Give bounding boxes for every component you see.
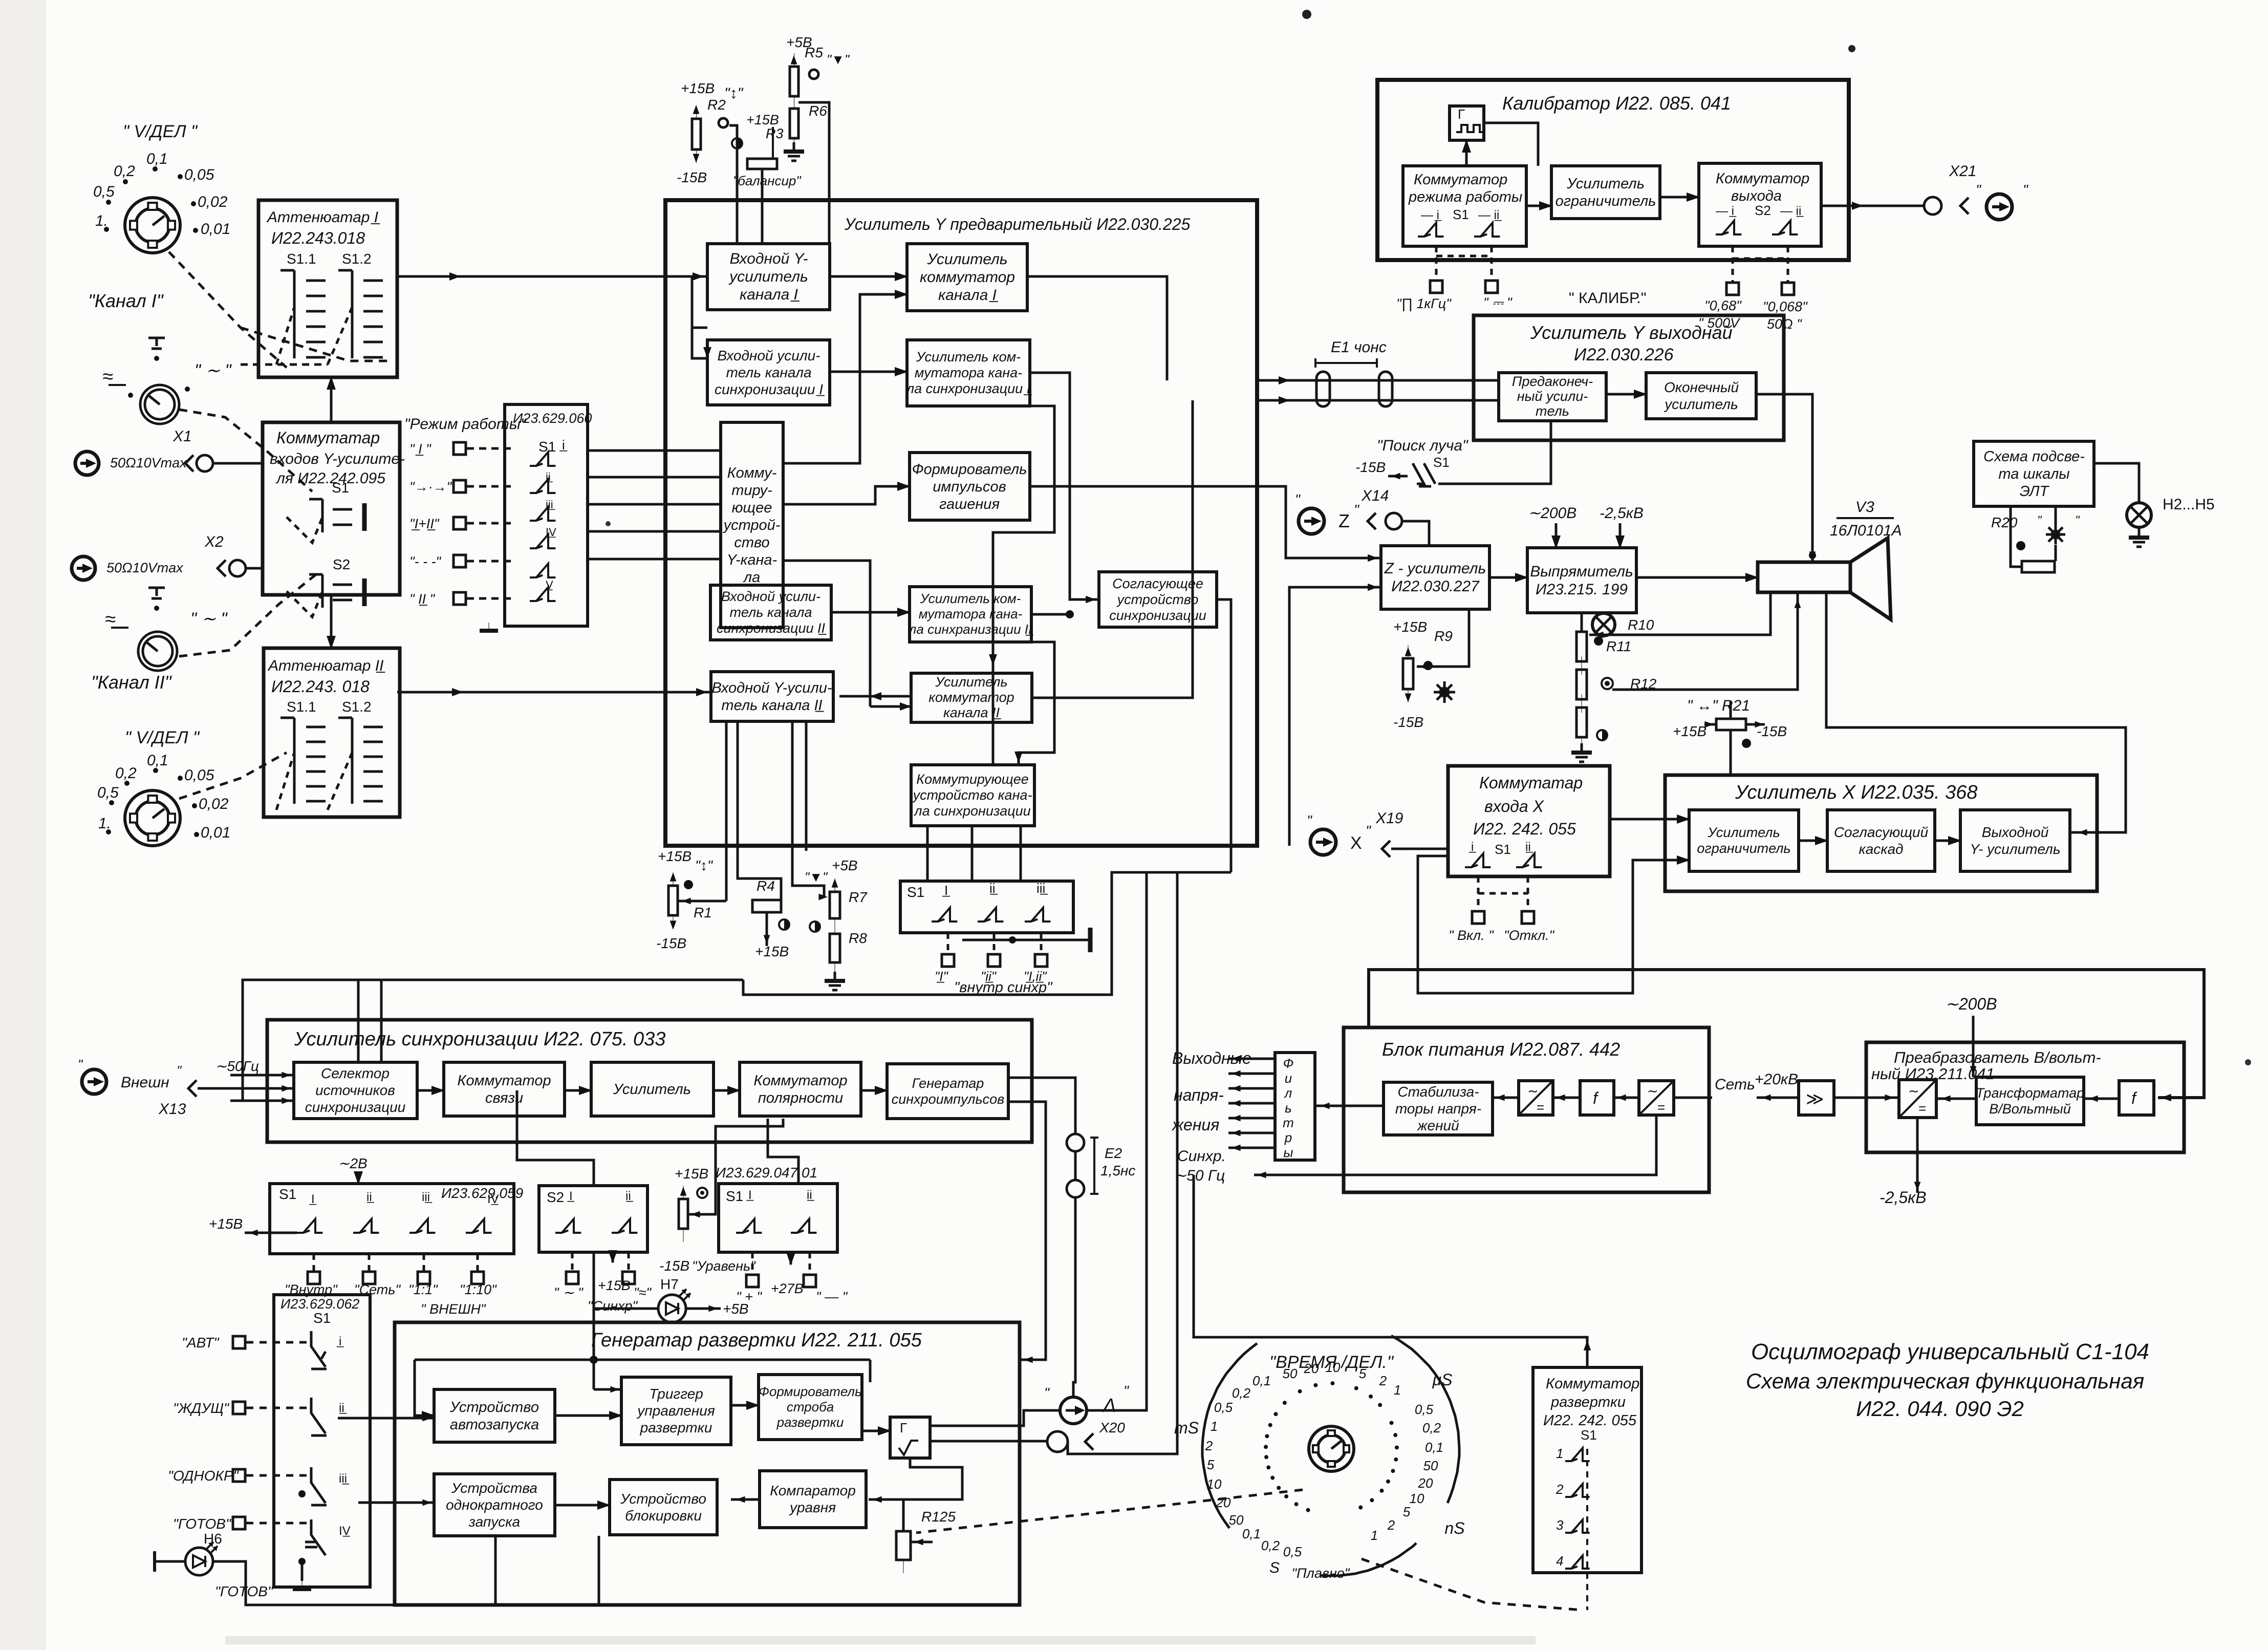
svg-text:IV̲: IV̲	[546, 526, 556, 539]
svg-text:Усилитель синхронизации И22.: Усилитель синхронизации И22. 075. 033	[294, 1028, 665, 1050]
lamp H2...H5	[2127, 503, 2151, 527]
rotary switch knob V/ДЕЛ channel II	[125, 790, 180, 846]
switch contact синхр III	[409, 1219, 435, 1233]
resistor R5	[790, 53, 798, 110]
svg-text:Y- усилитель: Y- усилитель	[1970, 841, 2060, 857]
svg-text:синхронизации I̲: синхронизации I̲	[715, 381, 825, 397]
block Коммутирующее устройство Y-канала	[721, 422, 783, 628]
svg-text:ля И22.242.095: ля И22.242.095	[275, 470, 385, 487]
svg-text:усилитель: усилитель	[1664, 396, 1738, 412]
switch S1 input commutator	[309, 499, 364, 532]
svg-text:": "	[2075, 513, 2080, 527]
svg-text:— ii̲: — ii̲	[1478, 208, 1502, 222]
svg-text:Синхр.: Синхр.	[1177, 1148, 1226, 1165]
svg-text:R11: R11	[1606, 638, 1631, 654]
svg-text:" ∼ ": " ∼ "	[190, 609, 228, 629]
wire сеть to умножитель	[1757, 1097, 1799, 1099]
svg-text:1: 1	[1556, 1446, 1563, 1461]
block Усилитель ограничитель X	[1689, 810, 1799, 871]
wire генератор синхроимпульсов output 2 down	[1008, 1102, 1046, 1360]
wire branch to sync amp I	[692, 276, 707, 328]
svg-text:Г: Г	[900, 1420, 907, 1435]
potentiometer R125	[896, 1518, 911, 1573]
svg-text:"ОДНОКР": "ОДНОКР"	[168, 1468, 239, 1484]
ground И23.629.062	[293, 1581, 311, 1589]
dashed link polarity -	[809, 1252, 811, 1274]
junction CRT anode wire	[1809, 552, 1816, 559]
coupling selector knob channel II	[138, 632, 177, 671]
connector X2 input source symbol	[72, 556, 95, 580]
switch block И23.629.060	[505, 404, 588, 626]
svg-text:": "	[1124, 1383, 1129, 1399]
svg-text:ла синхронизации I̲: ла синхронизации I̲	[905, 381, 1032, 396]
svg-text:+15В: +15В	[1393, 619, 1427, 635]
svg-text:— ii̲: — ii̲	[1780, 204, 1804, 218]
wire усилитель коммутатор канала II to выходной усилитель	[1032, 400, 1193, 698]
svg-text:мутатора кана-: мутатора кана-	[915, 365, 1022, 380]
svg-text:Выходной: Выходной	[1982, 824, 2049, 840]
potentiometer R7	[830, 878, 840, 932]
adjust symbol R2	[719, 118, 728, 127]
svg-text:=: =	[1918, 1101, 1926, 1116]
svg-text:режима работы: режима работы	[1408, 189, 1522, 205]
wire Y signal lower to предоконечный	[1257, 399, 1499, 402]
wire sweep feedback bus	[415, 1359, 870, 1361]
mode button 2	[233, 1402, 245, 1414]
svg-text:+15В: +15В	[675, 1166, 708, 1182]
svg-text:Трансформатар: Трансформатар	[1976, 1085, 2084, 1101]
wire подсвет to R20 right	[2055, 506, 2057, 525]
svg-text:Компаратор: Компаратор	[770, 1483, 856, 1498]
switch S1 поиск луча	[1413, 463, 1435, 486]
wire Y-channel commutating device to Формирователь импульсов	[783, 486, 910, 504]
svg-text:Коммутатор: Коммутатор	[457, 1073, 551, 1089]
svg-text:блокировки: блокировки	[625, 1508, 702, 1524]
wire Z amp to R9 wiper	[1417, 609, 1469, 667]
block Триггер управления развертки	[621, 1377, 731, 1445]
svg-text:коммутатор: коммутатор	[928, 690, 1014, 705]
svg-text:р: р	[1284, 1130, 1292, 1145]
wire формирователь импульсов to Z amplifier input 1	[1030, 486, 1381, 558]
svg-text:коммутатор: коммутатор	[920, 269, 1015, 286]
connector X1 input source symbol	[75, 452, 99, 475]
wire коммутатор полярности to генератор синхроимпульсов	[861, 1089, 887, 1092]
svg-text:R7: R7	[849, 889, 868, 905]
svg-text:Триггер: Триггер	[649, 1386, 703, 1402]
button sync source 1	[308, 1272, 320, 1284]
switch contact S1-I вход X	[1465, 853, 1491, 867]
svg-text:∼200В: ∼200В	[1945, 995, 1997, 1013]
wire internal sync to селектор	[230, 1100, 294, 1102]
switch block S2 связь	[539, 1186, 647, 1252]
svg-text:∼50 Гц: ∼50 Гц	[1174, 1167, 1225, 1184]
svg-text:X2: X2	[204, 533, 224, 550]
svg-text:S1.1: S1.1	[287, 251, 316, 267]
wire S2 to +15В	[612, 1252, 614, 1262]
svg-text:": "	[1354, 502, 1359, 518]
selector button 1 режим работы	[453, 442, 466, 455]
dashed link polarity +	[751, 1252, 754, 1274]
wire усилитель коммутатор канала I to выходной усилитель	[1027, 276, 1167, 380]
svg-text:устрой-: устрой-	[723, 517, 781, 533]
wire X19 to коммутатар входа X	[1391, 848, 1448, 850]
ground lamp H2-H5	[2129, 528, 2149, 547]
switch S1 contacts I-V режим работы	[530, 452, 555, 466]
dashed link S2 to button 0,68	[1732, 246, 1734, 283]
potentiometer R21	[1716, 719, 1746, 730]
svg-text:0,05: 0,05	[184, 166, 214, 183]
svg-text:И22. 242. 055: И22. 242. 055	[1543, 1412, 1637, 1429]
connector symbol Л output	[1060, 1397, 1087, 1424]
wire ~200В to выпрямитель	[1555, 523, 1558, 548]
wire Y-channel commutating device to commutator amplifier II	[783, 561, 870, 706]
svg-text:S1: S1	[1453, 207, 1469, 222]
svg-text:Схема электрическая функцион: Схема электрическая функциональная	[1746, 1369, 2144, 1393]
block Усилитель Y выходной И22.030.226	[1474, 315, 1784, 440]
svg-text:10: 10	[1326, 1360, 1341, 1375]
svg-text:Усилитель ком-: Усилитель ком-	[920, 591, 1021, 606]
svg-text:≫: ≫	[1806, 1089, 1824, 1109]
svg-text:развертки: развертки	[776, 1415, 844, 1430]
svg-text:л: л	[1284, 1085, 1292, 1101]
svg-text:R9: R9	[1434, 628, 1453, 644]
switch S1.1 attenuator I	[280, 270, 294, 358]
svg-text:1.: 1.	[98, 815, 111, 832]
svg-text:И22. 044. 090 Э2: И22. 044. 090 Э2	[1856, 1397, 2024, 1421]
wire коммутатор развертки to генератор развертки	[1194, 1175, 1587, 1367]
wire R125 wiper	[911, 1541, 933, 1544]
svg-text:": "	[1044, 1385, 1050, 1401]
switch contact внутр синхр II	[978, 908, 1003, 922]
svg-text:S2: S2	[547, 1189, 564, 1205]
svg-text:X1: X1	[172, 428, 192, 445]
svg-text:V3: V3	[1855, 499, 1874, 516]
wire sync commutator amp II to согласующее устройство node	[1031, 613, 1070, 616]
wire output voltage arrow 6	[1228, 1132, 1275, 1134]
wire attenuator II output to input Y amplifier channel II	[397, 691, 711, 694]
svg-text:ющее: ющее	[732, 500, 772, 516]
svg-text:входа X: входа X	[1484, 797, 1545, 816]
wire f2 to трансформатор	[2084, 1098, 2119, 1100]
svg-text:Осцилмограф универсальный С1-: Осцилмограф универсальный С1-104	[1751, 1339, 2149, 1364]
svg-text:50: 50	[1229, 1512, 1244, 1528]
wire inverter2 to f1	[1614, 1097, 1639, 1099]
switch contact синхр I	[297, 1219, 322, 1233]
svg-text:0,1: 0,1	[1425, 1440, 1443, 1455]
svg-text:Стабилиза-: Стабилиза-	[1397, 1084, 1479, 1100]
wire inverter1 to стабилизаторы	[1493, 1097, 1519, 1099]
svg-text:Коммутатор: Коммутатор	[1546, 1376, 1639, 1392]
svg-text:Схема подсве-: Схема подсве-	[1983, 448, 2085, 465]
block Усилитель коммутатор канала I	[907, 244, 1027, 311]
wire f1 to inverter1	[1553, 1097, 1580, 1099]
svg-text:Усилитель Y выходнай: Усилитель Y выходнай	[1530, 322, 1733, 343]
svg-text:0,2: 0,2	[1422, 1420, 1441, 1435]
svg-text:"Поиск луча": "Поиск луча"	[1377, 437, 1468, 454]
wire input amp II bias to R7	[792, 721, 824, 897]
wire X20 corridor vertical 2	[1068, 872, 1177, 1454]
block Согласующий каскад	[1827, 810, 1935, 871]
connector symbol Z input	[1299, 508, 1324, 534]
svg-text:"0,068": "0,068"	[1763, 299, 1808, 314]
svg-text:∼50Гц: ∼50Гц	[215, 1058, 259, 1074]
svg-text:"Синхр": "Синхр"	[588, 1298, 638, 1314]
svg-text:R3: R3	[766, 126, 784, 141]
svg-text:μS: μS	[1432, 1370, 1453, 1389]
svg-text:S1.2: S1.2	[342, 699, 372, 715]
svg-text:1,5нс: 1,5нс	[1100, 1163, 1135, 1178]
svg-text:-15В: -15В	[656, 935, 686, 951]
wire generator to limiter amplifier	[1484, 123, 1538, 166]
svg-text:"0,68": "0,68"	[1704, 298, 1742, 313]
svg-text:Е2: Е2	[1105, 1145, 1122, 1161]
svg-text:3: 3	[1556, 1517, 1564, 1533]
svg-text:" V/ДЕЛ ": " V/ДЕЛ "	[125, 728, 200, 747]
ground symbol channel II coupling	[148, 588, 165, 598]
block Стабилизаторы напряжений	[1384, 1082, 1493, 1135]
svg-text:"1:1": "1:1"	[408, 1282, 438, 1297]
wire sweep input to усилитель X lower	[1418, 856, 1689, 993]
block Z-усилитель И22.030.227	[1381, 546, 1489, 609]
svg-text:R10: R10	[1628, 617, 1654, 633]
svg-text:Калибратор И22. 085. 041: Калибратор И22. 085. 041	[1502, 93, 1731, 114]
wire селектор to коммутатор связи	[417, 1089, 444, 1092]
svg-text:": "	[2037, 513, 2042, 527]
svg-text:Λ: Λ	[1102, 1395, 1116, 1417]
potentiometer R4	[752, 900, 781, 912]
wire выпрямитель to CRT	[1636, 576, 1758, 579]
dot R9	[1423, 661, 1433, 670]
symbol уровень knob	[697, 1188, 707, 1198]
svg-text:импульсов: импульсов	[933, 479, 1006, 495]
svg-text:S1: S1	[907, 884, 924, 900]
resistor R6	[790, 95, 798, 152]
svg-text:Согласующее: Согласующее	[1112, 576, 1203, 591]
svg-text:строба: строба	[787, 1399, 834, 1415]
switch contact S2-II	[612, 1219, 637, 1233]
svg-text:0,5: 0,5	[1283, 1544, 1302, 1559]
button внутр синхр I,II	[1035, 954, 1047, 967]
svg-text:∼: ∼	[1908, 1083, 1919, 1099]
svg-text:Устройство: Устройство	[449, 1399, 539, 1416]
svg-text:синхронизации: синхронизации	[1109, 608, 1206, 623]
block Формирователь импульсов гашения	[910, 453, 1030, 520]
ground R12 chain	[1571, 743, 1592, 762]
button polarity -	[804, 1275, 816, 1287]
wire output voltage arrow 3	[1228, 1087, 1275, 1090]
svg-text:": "	[1295, 491, 1301, 507]
potentiometer R12	[1576, 694, 1587, 751]
wire H7 to +5В	[686, 1308, 721, 1310]
potentiometer R1	[668, 872, 678, 929]
wire R21 up	[1730, 701, 1732, 719]
wire компаратор to блокировка	[731, 1498, 760, 1501]
svg-text:тель канала II̲: тель канала II̲	[721, 697, 824, 714]
block Схема подсвета шкалы ЭЛТ	[1974, 441, 2094, 506]
svg-text:синхронизации: синхронизации	[305, 1099, 406, 1115]
svg-text:0,1: 0,1	[1252, 1373, 1271, 1388]
svg-text:∼200В: ∼200В	[1528, 505, 1576, 522]
wire input sync amp I to sync commutator amp I	[830, 371, 907, 373]
svg-text:2: 2	[1556, 1482, 1564, 1497]
dashed mechanical link coupling knob II to input commutator	[179, 573, 317, 656]
wire согласующий каскад to выходной усилитель	[1935, 840, 1960, 842]
block Устройство блокировки	[610, 1480, 717, 1535]
switch S1.2 attenuator II	[338, 718, 352, 804]
svg-text:X20: X20	[1099, 1420, 1125, 1435]
wire 50Гц to селектор	[230, 1074, 294, 1077]
svg-text:+15В: +15В	[755, 944, 789, 959]
button 0,68 500V	[1726, 283, 1739, 295]
svg-text:Селектор: Селектор	[321, 1065, 390, 1081]
resistor R2	[692, 105, 701, 163]
potentiometer уровень	[679, 1186, 688, 1242]
svg-text:тель: тель	[1536, 403, 1569, 419]
wire input amp II bias to R4	[738, 721, 781, 900]
wire feedback to автозапуск	[415, 1360, 434, 1416]
block Усилитель ограничитель калибратор	[1551, 166, 1660, 219]
wire автозапуск to триггер	[555, 1415, 621, 1417]
resistor R20	[2022, 561, 2055, 572]
svg-text:— i̲: — i̲	[1421, 208, 1441, 222]
svg-text:"1:10": "1:10"	[460, 1282, 497, 1297]
ground R6	[784, 142, 804, 161]
wire into триггер top	[594, 1388, 621, 1391]
svg-text:Коммутатар: Коммутатар	[1479, 774, 1583, 792]
svg-text:В/Вольтный: В/Вольтный	[1989, 1101, 2071, 1117]
block sweep shaper Г √	[890, 1417, 930, 1458]
wire режим работы output 1 to Y-channel commutating device	[588, 449, 721, 452]
svg-text:16Л0101А: 16Л0101А	[1830, 522, 1902, 539]
svg-text:50Ω10Vmax: 50Ω10Vmax	[110, 455, 187, 470]
block Коммутирующее устройство канала синхронизации	[911, 765, 1034, 826]
wire sync commutator I to sync channel commutating device	[993, 406, 1054, 765]
dial arc left	[1202, 1343, 1257, 1528]
switch block S1 внутр синхр	[900, 881, 1073, 933]
svg-text:" ⎓ ": " ⎓ "	[1483, 295, 1513, 310]
mode button 1	[233, 1336, 245, 1348]
svg-text:Ф: Ф	[1283, 1056, 1294, 1071]
wire трансформатор to inverter3	[1936, 1098, 1976, 1100]
wire polarity to +27В	[790, 1252, 792, 1265]
svg-text:Выпрямитель: Выпрямитель	[1530, 563, 1633, 580]
block Селектор источников синхронизации	[294, 1062, 417, 1119]
wire CRT pin to R11	[1612, 592, 1798, 690]
svg-text:5: 5	[1403, 1504, 1411, 1519]
wire input amp II bias to R1	[725, 721, 728, 901]
svg-text:Усилитель ком-: Усилитель ком-	[916, 349, 1021, 365]
dashed link mode button 4	[246, 1522, 307, 1525]
delay line E1 capsule 1	[1316, 372, 1330, 406]
svg-text:Сеть: Сеть	[1715, 1076, 1755, 1093]
dashed link into attenuator I	[241, 363, 328, 366]
svg-text:"внутр синхр": "внутр синхр"	[954, 979, 1053, 996]
button Откл	[1522, 911, 1534, 924]
block Входной Y-усилитель канала I	[707, 244, 830, 310]
block Коммутатар входа X И22.242.055	[1448, 766, 1610, 876]
LED H7	[658, 1289, 690, 1322]
wire коммутатор связи to усилитель	[565, 1089, 591, 1092]
button Вкл	[1472, 911, 1484, 924]
svg-text:-15В: -15В	[677, 169, 707, 185]
wire -2.5кВ to выпрямитель	[1619, 523, 1622, 548]
svg-text:" I̲ ": " I̲ "	[409, 441, 431, 457]
wire common внутр синхр	[962, 939, 1090, 941]
wire фильтры to стабилизаторы	[1315, 1105, 1384, 1107]
dashed link S1 to button Л 1kHz	[1435, 246, 1438, 281]
wire input sync amp II to sync commutator amp II	[831, 611, 910, 614]
svg-text:ла: ла	[743, 569, 760, 586]
selector button 4 режим работы	[453, 555, 466, 567]
block Аттенюатор II И22.243.018	[264, 648, 400, 817]
wire commutator amp II to input Y amp II	[839, 695, 911, 698]
block Усилитель коммутатор канала II	[911, 673, 1032, 722]
svg-text:+15В: +15В	[658, 848, 692, 864]
button внутр синхр I	[942, 954, 954, 967]
output source symbol X21	[1986, 194, 2012, 220]
wire to Z amplifier input 2	[1289, 587, 1381, 846]
svg-text:Входной усили-: Входной усили-	[721, 589, 820, 604]
selector button 3 режим работы	[453, 517, 466, 529]
svg-text:∼: ∼	[1527, 1083, 1539, 1099]
switch contact синхр IV	[466, 1219, 491, 1233]
svg-text:"- - -": "- - -"	[409, 554, 442, 569]
junction sweep feedback	[590, 1356, 598, 1364]
svg-text:X: X	[1350, 833, 1362, 853]
wire X2 to input commutator	[246, 567, 263, 570]
wire синхр 50Гц from inverter2	[1254, 1115, 1656, 1175]
svg-text:R5: R5	[805, 45, 823, 60]
button ⎓	[1485, 281, 1498, 293]
wire Е2 corridor down to Л output	[1073, 1197, 1075, 1397]
svg-text:0,1: 0,1	[1242, 1526, 1261, 1541]
svg-text:Аттенюатар I̲: Аттенюатар I̲	[266, 209, 380, 226]
wire коммутатор связи to S2 box	[517, 1090, 594, 1186]
svg-text:синхронизации II̲: синхронизации II̲	[717, 620, 827, 636]
dot R20	[2016, 541, 2025, 550]
svg-text:Согласующий: Согласующий	[1834, 824, 1929, 840]
connector X20 circle	[1047, 1431, 1068, 1452]
dashed link S1 to Откл button	[1527, 876, 1529, 911]
svg-text:Коммутатор: Коммутатор	[1716, 170, 1809, 187]
dashed link mode button 2	[246, 1407, 307, 1409]
wire согласующее устройство output down	[1217, 599, 1231, 872]
svg-text:"▼": "▼"	[805, 869, 828, 885]
block DC-AC converter symbol 1	[1519, 1081, 1553, 1115]
svg-text:Комму-: Комму-	[727, 465, 777, 481]
wire R1 wiper	[678, 900, 726, 903]
wire internal sync feedback loop	[243, 980, 743, 1101]
wire ограничитель to коммутатор выхода	[1660, 196, 1699, 199]
svg-text:"Режим работы": "Режим работы"	[404, 416, 527, 433]
CRT V3 16Л0101А funnel	[1850, 538, 1891, 619]
block Коммутатор полярности	[740, 1062, 861, 1116]
block Входной усилитель канала синхронизации II	[710, 585, 831, 640]
svg-text:И23.629.047.01: И23.629.047.01	[716, 1165, 817, 1181]
svg-text:ство: ство	[734, 534, 769, 551]
svg-text:жений: жений	[1416, 1118, 1459, 1133]
wire предоконечный to поиск луча	[1438, 421, 1551, 484]
block outline Усилитель Y предварительный И22.030.225	[665, 200, 1257, 846]
svg-text:" — ": " — "	[816, 1289, 848, 1304]
svg-text:т: т	[1283, 1115, 1294, 1130]
svg-text:Устройство: Устройство	[620, 1491, 706, 1507]
svg-text:0,5: 0,5	[1214, 1400, 1233, 1415]
wire ~2В into switch	[357, 1173, 360, 1184]
switch S1.1 attenuator II	[280, 718, 294, 804]
svg-text:1: 1	[1211, 1419, 1218, 1434]
wire режим работы output 3 to Y-channel commutating device	[588, 503, 721, 506]
